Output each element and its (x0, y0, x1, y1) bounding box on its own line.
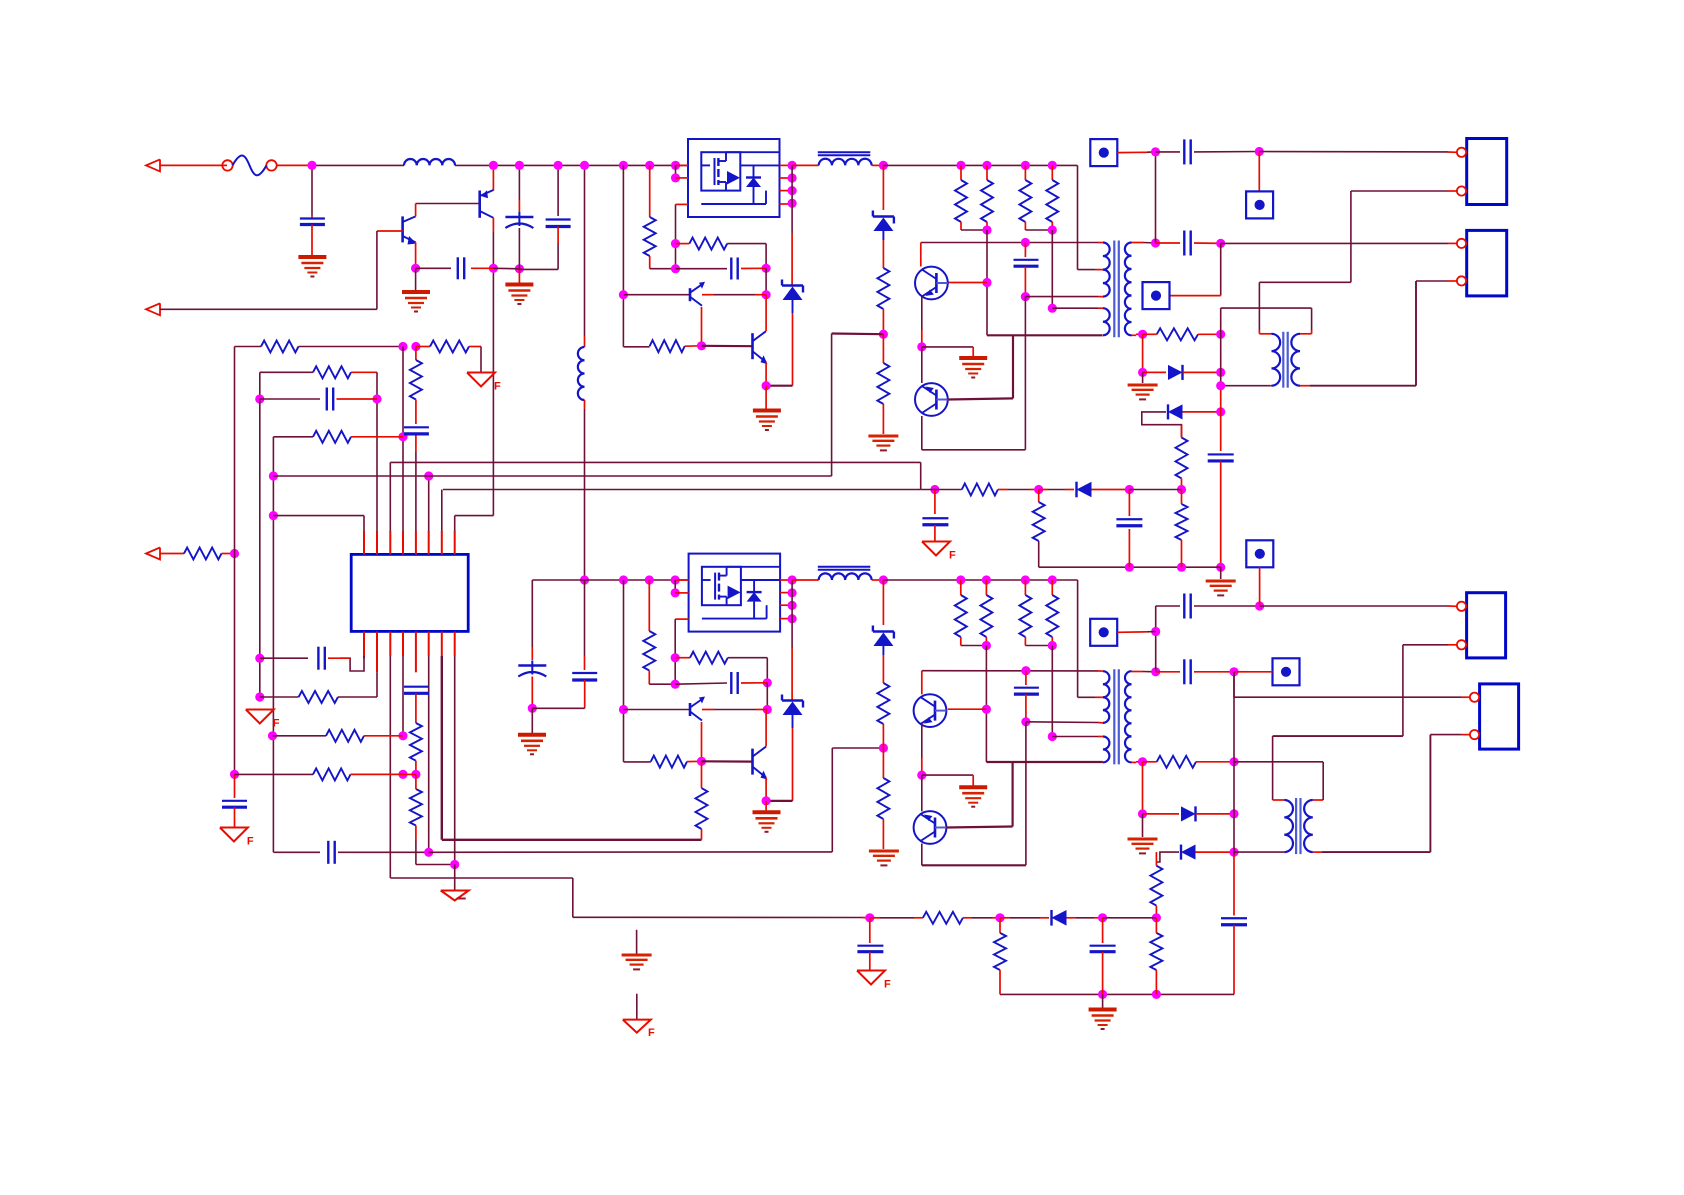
svg-text:F: F (247, 836, 254, 848)
svg-text:F: F (648, 1027, 655, 1039)
svg-text:F: F (494, 381, 501, 393)
svg-text:F: F (949, 550, 956, 562)
svg-text:F: F (273, 718, 280, 730)
svg-text:F: F (884, 979, 891, 991)
